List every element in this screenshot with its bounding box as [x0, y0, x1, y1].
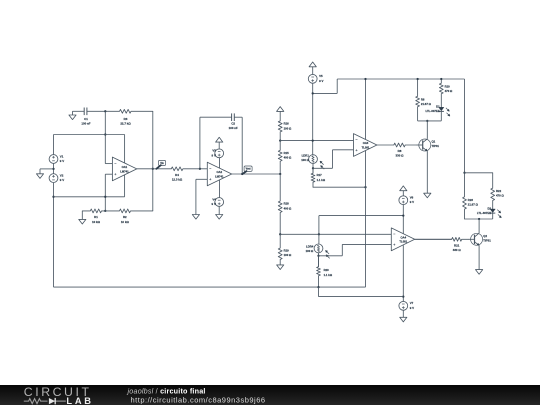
- resistor R18 400: [278, 174, 292, 234]
- node: collector node D1/R6: [426, 120, 428, 122]
- wire: LDR2 column: [318, 216, 320, 244]
- svg-text:R16: R16: [284, 122, 290, 126]
- photoresistor LDR2 100: [306, 244, 330, 258]
- node: right branch split: [463, 172, 465, 174]
- svg-text:9 V: 9 V: [212, 202, 216, 206]
- svg-text:9 V: 9 V: [410, 200, 414, 204]
- node: Q2 collector node: [478, 218, 480, 220]
- svg-text:LM741: LM741: [120, 169, 129, 173]
- voltage source V4 9V: [212, 197, 224, 206]
- svg-text:V1: V1: [60, 154, 64, 158]
- svg-text:9 V: 9 V: [212, 153, 216, 157]
- svg-text:R23: R23: [468, 198, 474, 202]
- wire: feedback loop right leg: [241, 117, 243, 174]
- svg-text:R21: R21: [454, 243, 460, 247]
- svg-text:9 V: 9 V: [410, 306, 414, 310]
- svg-text:Vout: Vout: [246, 168, 251, 171]
- svg-text:LTL-307EE: LTL-307EE: [477, 211, 491, 215]
- node: LDR2 column top: [318, 233, 320, 235]
- wire: positive supply rail top right: [337, 78, 464, 80]
- transistor Q1 TIP31: [417, 139, 440, 151]
- svg-text:R3: R3: [124, 117, 128, 121]
- svg-text:R15: R15: [284, 151, 290, 155]
- node: + input line crosses V- rail: [104, 196, 106, 198]
- svg-text:Q1: Q1: [432, 140, 436, 144]
- logo circuit symbol: resistor zigzag and diode: [24, 398, 66, 403]
- wire: Q2 emitter down: [478, 245, 480, 269]
- net flag (up) above V5: [309, 62, 316, 74]
- node: R1/R2 junction: [104, 210, 106, 212]
- svg-text:100 Ω: 100 Ω: [306, 249, 314, 253]
- svg-text:TIP31: TIP31: [432, 144, 440, 148]
- svg-text:100 Ω: 100 Ω: [284, 253, 292, 257]
- svg-text:10 kΩ: 10 kΩ: [121, 220, 130, 224]
- svg-text:D2: D2: [488, 206, 492, 210]
- node: LDR2/R20 junction: [317, 255, 319, 257]
- svg-text:LDR4: LDR4: [306, 244, 314, 248]
- svg-text:9 V: 9 V: [60, 159, 64, 163]
- resistor R15 400: [278, 141, 292, 174]
- svg-text:R19: R19: [284, 249, 290, 253]
- resistor R8 330: [377, 143, 417, 158]
- node: chain node B (OA2 output): [279, 173, 281, 175]
- resistor R22 470: [491, 173, 505, 209]
- node: R6 top on rail: [416, 78, 418, 80]
- svg-text:OA1: OA1: [122, 165, 128, 169]
- svg-text:TIP31: TIP31: [483, 239, 491, 243]
- svg-text:V3: V3: [212, 149, 216, 153]
- node: V5 bottom junction: [312, 92, 314, 94]
- ground (C1 left): [69, 111, 76, 119]
- wire: OA1 + input down to R1/R2 node: [104, 174, 106, 211]
- net flag (down) chain bottom -9V: [277, 263, 284, 270]
- svg-text:TL081: TL081: [399, 240, 407, 244]
- wire: node A to OA3 inverting input: [280, 140, 353, 142]
- net flag Vout: [242, 166, 252, 174]
- svg-text:LM741: LM741: [215, 174, 224, 178]
- LED D1 LTL-307EE: [425, 105, 449, 117]
- svg-text:R18: R18: [284, 202, 290, 206]
- svg-text:LAB: LAB: [66, 396, 93, 405]
- node: V6 bottom junction: [402, 214, 404, 216]
- net flag (up) above V6: [400, 186, 407, 196]
- resistor R3 22.7 k: [105, 109, 153, 125]
- wire: V5 to LDR1 branch and supply step: [313, 79, 338, 155]
- resistor R4 12.3 k: [171, 167, 200, 182]
- svg-text:V6: V6: [410, 196, 414, 200]
- op-amp OA4 TL081: [391, 228, 414, 301]
- svg-text:100 Ω: 100 Ω: [301, 158, 309, 162]
- svg-text:OA4: OA4: [401, 236, 407, 240]
- svg-text:joaolbsl / circuito final: joaolbsl / circuito final: [127, 386, 206, 395]
- wire: feedback loop left leg: [199, 117, 201, 169]
- svg-text:100 Ω: 100 Ω: [284, 126, 292, 130]
- resistor R16 100: [278, 121, 292, 141]
- svg-text:R17: R17: [317, 173, 323, 177]
- svg-text:400 Ω: 400 Ω: [284, 156, 292, 160]
- svg-text:330 Ω: 330 Ω: [396, 154, 405, 158]
- wire: rail link to OA4 V-: [319, 287, 404, 297]
- wire: LDR2 bottom junction: [318, 253, 320, 267]
- svg-text:100 nF: 100 nF: [81, 121, 90, 125]
- node: V1/V2 midpoint: [52, 168, 54, 170]
- svg-text:D1: D1: [436, 105, 440, 109]
- svg-text:R22: R22: [496, 189, 502, 193]
- resistor R21 330: [415, 237, 468, 252]
- svg-text:21.67 Ω: 21.67 Ω: [468, 202, 479, 206]
- wire: top supply rail V1 to OA1 V+: [54, 135, 125, 155]
- svg-text:OA3: OA3: [363, 141, 369, 145]
- svg-text:V7: V7: [410, 301, 414, 305]
- svg-text:Vin: Vin: [160, 163, 164, 165]
- resistor R23 21.67: [463, 173, 479, 219]
- svg-text:OA2: OA2: [217, 170, 223, 174]
- svg-text:V5: V5: [319, 74, 323, 78]
- ground flag below V7: [400, 310, 407, 322]
- svg-text:R20: R20: [324, 268, 330, 272]
- wire: Q2 collector up: [478, 219, 480, 233]
- wire: collector node crossbar: [418, 107, 442, 121]
- wire: feedback node down to OA1 inverting input: [104, 111, 106, 163]
- node: bottom supply rail start: [52, 196, 54, 198]
- svg-text:9 V: 9 V: [319, 79, 323, 83]
- wire: V1 to V2: [53, 164, 55, 174]
- node: OA3 V+ on rail: [364, 78, 366, 80]
- net flag (up) chain top +9V: [277, 107, 284, 121]
- node: chain node A: [279, 139, 281, 141]
- wire: bottom crossbar block2: [465, 213, 493, 219]
- resistor R17 1.1 k: [311, 168, 326, 187]
- svg-text:TL081: TL081: [362, 145, 370, 149]
- voltage source V3 9V: [212, 149, 224, 158]
- wire: Q1 collector up: [426, 121, 428, 139]
- wire: LDR1 divider tap to OA3 + input: [313, 150, 353, 169]
- svg-text:LTL-307EE: LTL-307EE: [425, 109, 439, 113]
- svg-text:Q2: Q2: [483, 234, 487, 238]
- svg-text:10 kΩ: 10 kΩ: [92, 220, 101, 224]
- svg-text:R6: R6: [421, 97, 425, 101]
- wire: rail drop right side: [464, 79, 466, 173]
- svg-text:100 nF: 100 nF: [229, 126, 238, 130]
- svg-text:R10: R10: [445, 84, 451, 88]
- wire: V6 bottom to V+ rail of OA4: [319, 205, 403, 228]
- node: OA2 feedback left junction: [199, 168, 201, 170]
- wire: OA4 output to R21: [415, 238, 452, 240]
- wire: OA2 + input to ground: [196, 179, 207, 214]
- node: R10 top on rail: [440, 78, 442, 80]
- svg-text:22.7 kΩ: 22.7 kΩ: [120, 121, 131, 125]
- svg-text:http://circuitlab.com/c8a99n3s: http://circuitlab.com/c8a99n3sb9j66: [131, 395, 266, 404]
- wire: feedback vertical R3/R2 to output: [152, 111, 154, 211]
- resistor R20 1.1 k: [317, 256, 333, 287]
- op-amp OA1 LM741: [105, 135, 137, 197]
- wire: R4 to OA2 inverting input: [200, 168, 207, 170]
- svg-text:C1: C1: [84, 117, 88, 121]
- transistor Q2 TIP31: [468, 233, 491, 245]
- svg-text:C2: C2: [231, 121, 235, 125]
- voltage source V2 9V: [49, 174, 64, 183]
- wire: R17 bottom to OA3 V- line: [313, 186, 366, 188]
- svg-text:V2: V2: [60, 174, 64, 178]
- op-amp OA2 LM741: [207, 158, 231, 198]
- photoresistor LDR1 100: [301, 154, 324, 170]
- op-amp OA3 TL081: [354, 79, 377, 287]
- wire: OA2 output to divider chain: [232, 173, 281, 175]
- ground flag (Q1 emitter): [424, 193, 431, 198]
- wire: Q1 emitter down: [426, 151, 428, 193]
- ground flag below V4: [216, 207, 223, 220]
- svg-text:R8: R8: [398, 149, 402, 153]
- resistor R1 10 k: [82, 209, 105, 224]
- ground (OA2 + input): [192, 215, 199, 220]
- net flag (up) above V3: [216, 137, 223, 148]
- footer bar: [0, 385, 540, 405]
- node: R17 bottom on V- line: [364, 186, 366, 188]
- svg-text:470 Ω: 470 Ω: [445, 89, 453, 93]
- svg-text:R2: R2: [123, 215, 127, 219]
- svg-text:V4: V4: [212, 197, 216, 201]
- wire: branch to R22 column: [465, 172, 493, 174]
- node: OA1 output junction: [152, 168, 154, 170]
- wire: node C to OA4 inverting input: [280, 233, 391, 235]
- svg-text:12.3 kΩ: 12.3 kΩ: [172, 178, 183, 182]
- node: OA4 V- junction: [402, 295, 404, 297]
- svg-text:470 Ω: 470 Ω: [496, 194, 504, 198]
- net flag Vin: [156, 160, 165, 168]
- wire: LDR2 tap to OA4 + input: [319, 244, 392, 255]
- svg-text:21.67 Ω: 21.67 Ω: [421, 102, 432, 106]
- ground (R1 left): [79, 211, 86, 224]
- wire: bottom supply rail to OA1 V-: [54, 196, 125, 198]
- node: chain node C: [279, 233, 281, 235]
- svg-text:LDR1: LDR1: [302, 154, 310, 158]
- voltage source V6 9V: [399, 196, 414, 205]
- resistor R10 470: [439, 79, 453, 107]
- voltage source V1 9V: [49, 154, 64, 163]
- svg-text:1.1 kΩ: 1.1 kΩ: [324, 273, 333, 277]
- svg-text:9 V: 9 V: [60, 178, 64, 182]
- node: LDR1/R17 junction: [312, 167, 314, 169]
- svg-text:R1: R1: [94, 215, 98, 219]
- ground (V1/V2 midpoint): [36, 169, 53, 179]
- resistor R19 100: [278, 234, 292, 263]
- svg-text:400 Ω: 400 Ω: [284, 206, 292, 210]
- wire: V2 down to bottom rail: [53, 183, 55, 287]
- svg-text:330 Ω: 330 Ω: [453, 248, 462, 252]
- node: OA2 output junction: [241, 173, 243, 175]
- node: LDR1 top / node A: [312, 139, 314, 141]
- wire: OA1 output to R4: [137, 168, 172, 170]
- svg-text:1.1 kΩ: 1.1 kΩ: [317, 178, 326, 182]
- svg-text:R4: R4: [175, 173, 179, 177]
- voltage source V5 9V: [308, 74, 323, 83]
- LED D2 LTL-307EE: [477, 206, 501, 218]
- ground flag (Q2 emitter): [476, 269, 483, 274]
- voltage source V7 9V: [399, 301, 414, 310]
- wire: bottom -9V rail: [54, 286, 366, 288]
- node: vertical crosses V+ rail: [104, 133, 106, 135]
- node: R20 bottom on rail: [317, 286, 319, 288]
- resistor R6 21.67: [416, 79, 432, 107]
- resistor R2 10 k: [105, 209, 153, 224]
- wire: LDR1 bottom junction: [312, 164, 314, 174]
- capacitor C1 100 nF: [73, 108, 106, 126]
- node: C1/R3 junction: [104, 110, 106, 112]
- capacitor C2 100 nF: [200, 113, 242, 130]
